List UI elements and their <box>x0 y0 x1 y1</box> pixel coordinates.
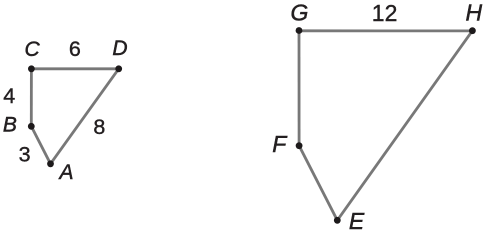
svg-text:D: D <box>112 37 127 60</box>
svg-text:12: 12 <box>372 0 398 26</box>
svg-text:F: F <box>272 131 288 157</box>
svg-text:3: 3 <box>19 142 31 166</box>
svg-text:8: 8 <box>93 115 105 139</box>
side GH <box>299 29 472 32</box>
svg-text:E: E <box>349 208 365 234</box>
side EH <box>337 31 472 221</box>
vertex B <box>28 123 35 130</box>
side CD <box>31 67 118 70</box>
svg-text:6: 6 <box>69 37 81 61</box>
vertex F <box>296 142 303 149</box>
svg-text:4: 4 <box>3 84 15 108</box>
svg-text:B: B <box>3 114 17 137</box>
vertex A <box>47 160 54 167</box>
side GF <box>298 31 301 146</box>
svg-text:C: C <box>25 38 41 61</box>
vertex H <box>469 27 476 34</box>
side FE <box>299 146 337 221</box>
vertex D <box>115 65 122 72</box>
svg-text:H: H <box>465 0 482 25</box>
svg-text:A: A <box>57 161 73 184</box>
side CB <box>30 69 33 127</box>
vertex C <box>28 65 35 72</box>
side AD <box>51 69 119 164</box>
svg-text:G: G <box>290 0 308 26</box>
vertex E <box>334 217 341 224</box>
vertex G <box>296 27 303 34</box>
side BA <box>31 126 50 164</box>
